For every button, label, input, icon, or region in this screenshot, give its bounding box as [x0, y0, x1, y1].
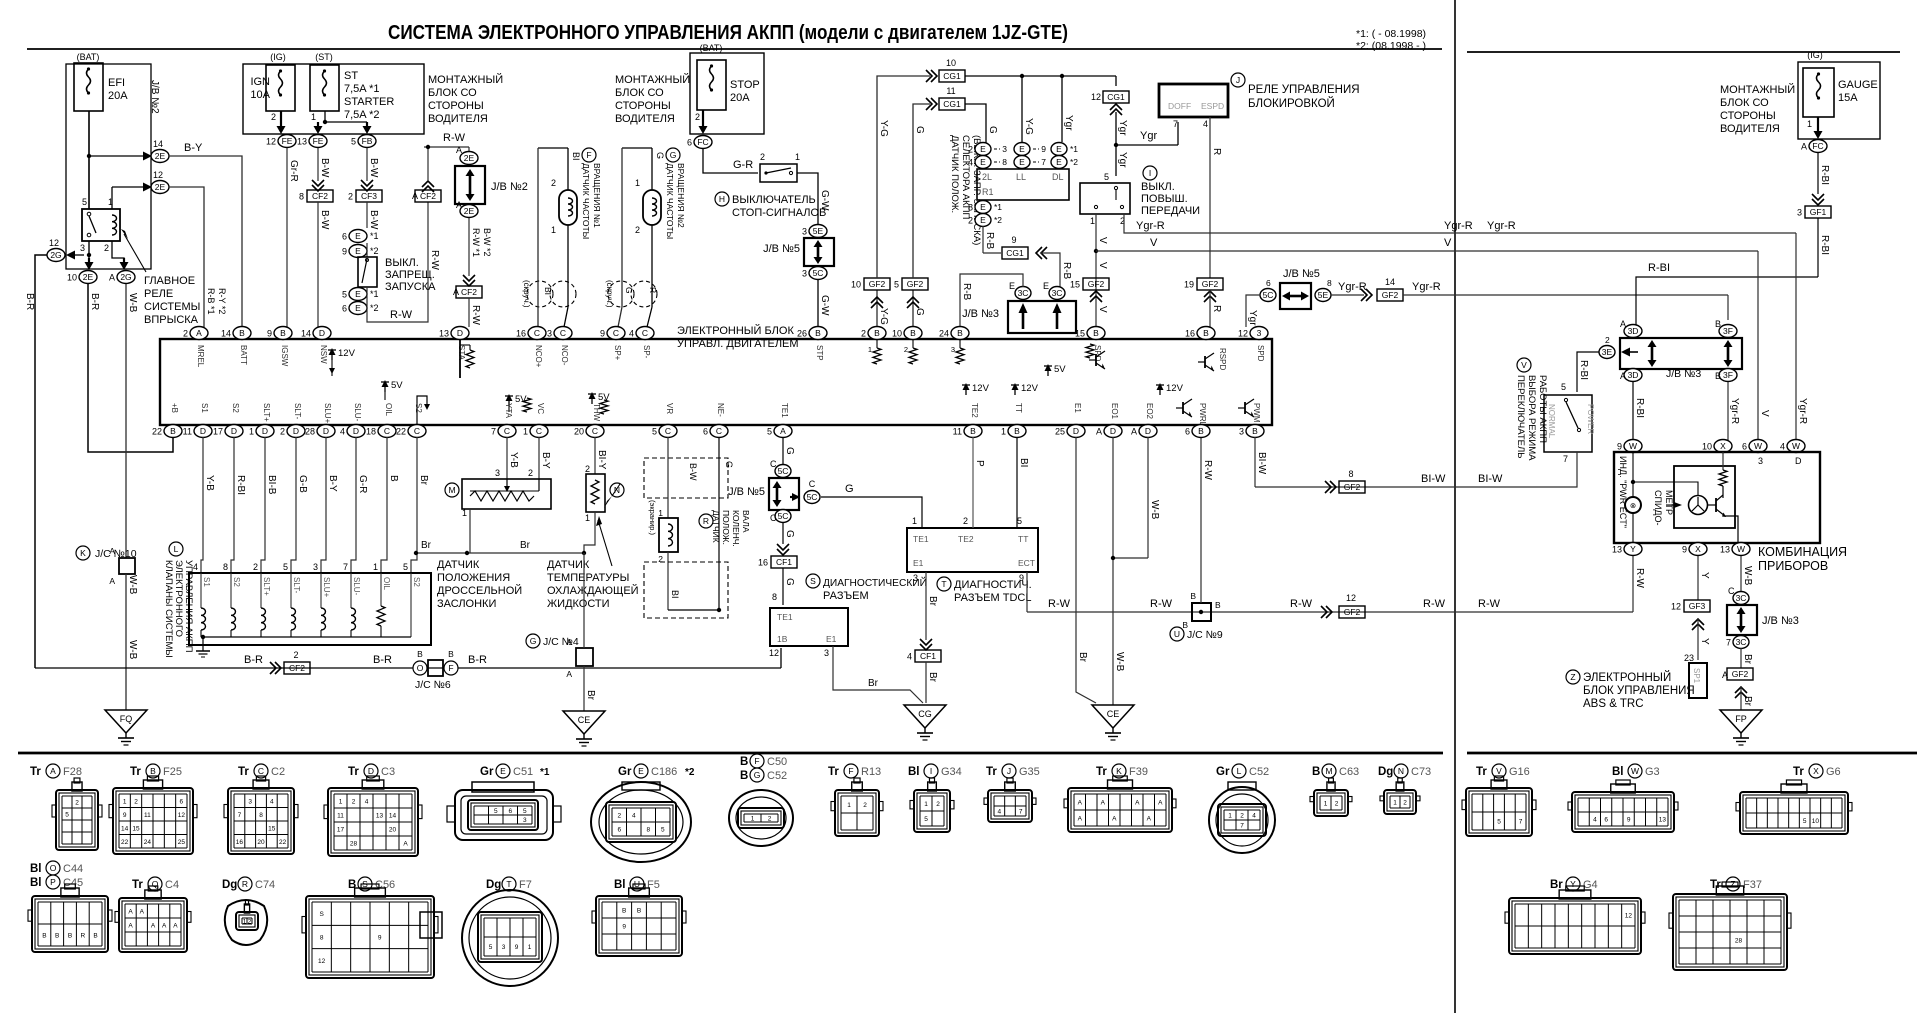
svg-text:ВЫБОРА РЕЖИМА: ВЫБОРА РЕЖИМА [1526, 375, 1537, 461]
svg-text:S2: S2 [414, 403, 423, 413]
wire Br from diag connector pin3 to CG ground [833, 646, 923, 703]
svg-text:3: 3 [913, 573, 918, 583]
svg-text:ТЕМПЕРАТУРЫ: ТЕМПЕРАТУРЫ [547, 572, 629, 584]
svg-text:3C: 3C [1052, 288, 1063, 298]
svg-text:9: 9 [622, 924, 626, 931]
svg-text:F39: F39 [1129, 766, 1148, 778]
wire W-B from ECU AD pins to CE ground [1112, 437, 1114, 705]
svg-text:R-W: R-W [1202, 460, 1213, 481]
wire relay pin3 to 2G [74, 254, 84, 256]
svg-text:8: 8 [320, 935, 324, 942]
svg-text:B-W *2: B-W *2 [482, 228, 492, 257]
wire Br from ECU 25D to CE ground [1076, 437, 1096, 703]
junction block J/B No5 left [804, 238, 834, 266]
svg-text:14: 14 [389, 813, 397, 820]
svg-text:B: B [448, 649, 454, 659]
svg-text:9: 9 [1682, 545, 1687, 555]
wire BI-Y coolant sensor [594, 437, 596, 474]
svg-text:R: R [242, 879, 248, 889]
svg-text:B-R: B-R [89, 293, 100, 310]
svg-text:J/C №4: J/C №4 [543, 636, 579, 648]
svg-text:R-W: R-W [429, 250, 440, 271]
ground CE left [563, 711, 605, 734]
svg-text:1: 1 [1001, 427, 1006, 437]
svg-text:3: 3 [313, 562, 318, 572]
svg-text:13: 13 [1659, 817, 1667, 824]
svg-text:I: I [930, 766, 932, 776]
svg-text:POWER: POWER [1586, 404, 1595, 434]
svg-text:E1: E1 [913, 558, 924, 568]
svg-text:5: 5 [283, 562, 288, 572]
svg-text:Ygr: Ygr [1117, 152, 1128, 168]
svg-text:15: 15 [1075, 329, 1085, 339]
wire R-W from mounting block to J/B No2 [424, 146, 469, 148]
wire Y from cluster 9X to ABS [1697, 556, 1699, 600]
svg-text:TE2: TE2 [970, 403, 979, 418]
svg-text:SLT-: SLT- [293, 403, 302, 420]
svg-text:(IG): (IG) [1807, 50, 1823, 60]
pin 12 FE [278, 135, 296, 148]
svg-text:R-BI: R-BI [1648, 262, 1670, 274]
svg-text:LL: LL [1016, 172, 1026, 182]
pin 9 E *2 [349, 245, 367, 258]
svg-text:E: E [1056, 144, 1062, 154]
svg-text:Br: Br [1077, 652, 1088, 663]
svg-text:BI-W: BI-W [1256, 452, 1267, 475]
svg-text:E: E [980, 144, 986, 154]
svg-text:4: 4 [1593, 817, 1597, 824]
svg-text:Gr-R: Gr-R [288, 160, 299, 182]
svg-text:C4: C4 [165, 879, 179, 891]
svg-text:ИНД. "PWR ECT": ИНД. "PWR ECT" [1618, 456, 1628, 528]
svg-text:R-W *1: R-W *1 [471, 228, 481, 257]
ECU internal 12V near NSW [331, 350, 333, 360]
svg-text:14: 14 [121, 825, 129, 832]
ECU internal STA branch [459, 340, 461, 378]
ECU bottom pin row [164, 425, 182, 438]
arrow from coolant label to sensor [598, 520, 612, 566]
svg-text:STOP: STOP [730, 79, 760, 91]
svg-text:15: 15 [1070, 280, 1080, 290]
svg-text:P: P [974, 460, 985, 467]
svg-text:*1: *1 [370, 289, 379, 299]
svg-text:G3: G3 [1645, 766, 1660, 778]
wire R-W return from switch [367, 202, 428, 322]
svg-text:Dg: Dg [486, 879, 501, 891]
svg-text:THW: THW [592, 403, 601, 422]
svg-text:T: T [506, 879, 511, 889]
svg-text:FP: FP [1735, 714, 1747, 724]
svg-text:5C: 5C [1263, 290, 1274, 300]
svg-text:3: 3 [1002, 144, 1007, 154]
svg-text:GF2: GF2 [907, 279, 924, 289]
svg-text:B-R: B-R [24, 293, 35, 310]
svg-text:E: E [980, 157, 986, 167]
svg-text:V: V [1097, 237, 1108, 244]
svg-text:МОНТАЖНЫЙ: МОНТАЖНЫЙ [1720, 83, 1795, 96]
svg-text:A: A [1620, 371, 1626, 381]
svg-text:Ygr-R: Ygr-R [1444, 220, 1473, 232]
svg-text:GF1: GF1 [1810, 207, 1827, 217]
svg-text:Bl: Bl [614, 879, 626, 891]
svg-text:14: 14 [301, 329, 311, 339]
svg-text:13: 13 [297, 137, 307, 147]
wire Ygr-R right via 14 GF2 [1331, 294, 1364, 296]
junction block J/B No3 bottom right [1727, 605, 1757, 635]
svg-text:13: 13 [1612, 545, 1622, 555]
svg-text:2: 2 [104, 243, 109, 253]
svg-text:25: 25 [178, 839, 186, 846]
svg-text:8: 8 [299, 192, 304, 202]
svg-text:2: 2 [863, 802, 867, 809]
svg-text:2: 2 [293, 650, 298, 660]
svg-text:2: 2 [1335, 801, 1339, 808]
svg-text:Y: Y [1699, 572, 1710, 579]
svg-text:16: 16 [758, 558, 768, 568]
svg-text:R-B *1: R-B *1 [206, 288, 216, 315]
svg-text:6: 6 [342, 232, 347, 242]
wire R-W from TDCL ECT pin9 [1026, 572, 1028, 612]
svg-text:E: E [638, 766, 644, 776]
pin 10 2E below relay box [79, 271, 97, 284]
svg-text:R-W: R-W [1478, 598, 1501, 610]
svg-text:W: W [1629, 441, 1637, 451]
svg-text:B-W: B-W [319, 210, 330, 230]
svg-text:CF1: CF1 [920, 651, 936, 661]
svg-text:7: 7 [1519, 819, 1523, 826]
wire B-Y TPS pin2 [538, 437, 540, 479]
crank position sensor ДАТЧИК ПОЛОЖ КОЛЕНЧ ВАЛА [667, 437, 669, 518]
wire Br to CE ground [583, 666, 585, 711]
svg-text:B-W: B-W [688, 463, 698, 481]
svg-text:ПОВЫШ.: ПОВЫШ. [1141, 193, 1188, 205]
svg-text:11: 11 [144, 812, 151, 819]
svg-text:*2: *2 [370, 246, 379, 256]
svg-text:C: C [414, 426, 420, 436]
svg-text:CG: CG [918, 709, 932, 719]
svg-text:ПОЛОЖЕНИЯ: ПОЛОЖЕНИЯ [437, 572, 510, 584]
svg-text:ДРОССЕЛЬНОЙ: ДРОССЕЛЬНОЙ [437, 584, 522, 597]
svg-text:BI-W: BI-W [1421, 473, 1446, 485]
wire B-R bus bottom [35, 667, 781, 669]
svg-text:O: O [417, 663, 424, 673]
cluster top pins [1624, 440, 1642, 453]
svg-text:J/B №5: J/B №5 [763, 243, 800, 255]
svg-text:ПЕРЕДАЧИ: ПЕРЕДАЧИ [1141, 205, 1200, 217]
svg-text:3: 3 [80, 243, 85, 253]
svg-text:МОНТАЖНЫЙ: МОНТАЖНЫЙ [428, 73, 503, 86]
svg-text:NE-: NE- [716, 403, 725, 417]
svg-text:R-W: R-W [1290, 598, 1313, 610]
svg-text:BI-W: BI-W [1478, 473, 1503, 485]
svg-text:БЛОКИРОВКОЙ: БЛОКИРОВКОЙ [1248, 97, 1335, 110]
wire Ygr-R down to cluster 10X [1727, 382, 1729, 440]
svg-text:Br: Br [868, 678, 879, 689]
mounting block box around STOP fuse [690, 53, 764, 134]
svg-text:10: 10 [1812, 818, 1820, 825]
solenoid block box КЛАПАНЫ СИСТЕМЫ [189, 573, 431, 645]
pin B 3F top [1719, 325, 1737, 338]
arrows into enclosure bottom [88, 258, 90, 263]
ECU internal transistor RSPD [1204, 356, 1206, 368]
svg-text:VC: VC [536, 403, 545, 414]
svg-text:R-W: R-W [470, 305, 481, 326]
svg-text:5V: 5V [515, 394, 527, 405]
svg-text:2: 2 [968, 216, 973, 226]
junction block J/B No3 upper [1008, 301, 1076, 333]
svg-text:GF2: GF2 [1382, 290, 1399, 300]
junction connector J/C No10 [76, 546, 90, 560]
svg-text:CG1: CG1 [1006, 248, 1024, 258]
crank sensor shield dashed box lower [644, 562, 728, 618]
svg-text:24: 24 [939, 329, 949, 339]
svg-text:1: 1 [373, 562, 378, 572]
svg-text:E: E [355, 246, 361, 256]
svg-text:C50: C50 [767, 756, 787, 768]
svg-text:G-R: G-R [357, 475, 368, 493]
svg-text:NSW: NSW [319, 345, 328, 364]
speed sensor No2 ДАТЧИК ЧАСТОТЫ ВРАЩЕНИЯ No2 [622, 147, 652, 149]
svg-text:5: 5 [661, 827, 665, 834]
svg-text:ПЕРЕКЛЮЧАТЕЛЬ: ПЕРЕКЛЮЧАТЕЛЬ [1515, 375, 1526, 458]
svg-text:6: 6 [1266, 278, 1271, 288]
svg-text:Bl: Bl [1612, 766, 1624, 778]
mounting block driver side box [243, 64, 424, 134]
svg-text:Ygr: Ygr [1247, 310, 1258, 326]
svg-text:EFI: EFI [108, 77, 125, 89]
svg-text:УПРАВЛ. ДВИГАТЕЛЕМ: УПРАВЛ. ДВИГАТЕЛЕМ [677, 338, 799, 350]
svg-text:7,5A *1: 7,5A *1 [344, 83, 379, 95]
svg-text:B: B [42, 933, 46, 940]
pin E 3C right [1049, 287, 1065, 300]
wire V from OD switch pin1 [1095, 214, 1097, 327]
svg-text:20A: 20A [108, 90, 128, 102]
svg-text:12: 12 [153, 170, 163, 180]
connector CG1 no10 [931, 70, 937, 82]
wire BI-W from ECU 3B [1254, 437, 1256, 487]
svg-text:РАЗЪЕМ: РАЗЪЕМ [823, 590, 869, 602]
svg-text:IGN: IGN [250, 76, 270, 88]
svg-text:12: 12 [178, 812, 186, 819]
svg-text:A: A [1801, 142, 1807, 152]
svg-text:E: E [355, 231, 361, 241]
junction block J/B No3 right [1620, 338, 1742, 369]
svg-text:W-B: W-B [127, 575, 138, 595]
svg-text:J/B №3: J/B №3 [962, 308, 999, 320]
svg-text:Y-G: Y-G [1023, 118, 1034, 135]
svg-text:R-W: R-W [443, 132, 466, 144]
lockup relay РЕЛЕ УПРАВЛЕНИЯ БЛОКИРОВКОЙ [1159, 84, 1228, 117]
pin 2 3E left [1599, 346, 1615, 359]
wire Ygr riser to 12 CG1 [1115, 76, 1117, 86]
svg-text:E: E [1043, 281, 1049, 291]
svg-text:5V: 5V [391, 380, 403, 391]
svg-text:G: G [914, 126, 925, 134]
svg-text:6: 6 [180, 798, 184, 805]
ground FP [1720, 710, 1762, 733]
twisted pair symbol sensor1 [527, 281, 553, 307]
wire R-B from selector to CG1 9 [982, 226, 984, 253]
svg-text:3: 3 [248, 798, 252, 805]
svg-text:B: B [1252, 426, 1258, 436]
wire Ygr to lockup relay pin7 [1116, 144, 1178, 146]
svg-text:22: 22 [121, 839, 129, 846]
svg-text:2: 2 [768, 816, 772, 823]
svg-text:12: 12 [318, 958, 326, 965]
svg-text:25: 25 [1055, 427, 1065, 437]
svg-text:*1: ( - 08.1998): *1: ( - 08.1998) [1356, 28, 1426, 40]
svg-text:FC: FC [1812, 141, 1823, 151]
wire G from ECU 5A [782, 437, 784, 465]
svg-text:1: 1 [751, 816, 755, 823]
svg-text:GF2: GF2 [869, 279, 886, 289]
svg-text:A: A [173, 923, 178, 930]
wire into speedometer [1633, 482, 1698, 496]
svg-text:SLU-: SLU- [352, 577, 361, 596]
svg-text:A: A [1101, 800, 1106, 807]
svg-text:2: 2 [271, 112, 276, 122]
pin A 3D bottom [1624, 369, 1642, 382]
svg-text:Ygr-R: Ygr-R [1487, 220, 1516, 232]
svg-text:1: 1 [551, 225, 556, 235]
svg-text:O: O [50, 863, 57, 873]
svg-text:СТОРОНЫ: СТОРОНЫ [428, 100, 484, 112]
svg-text:V: V [1759, 410, 1770, 417]
svg-text:T: T [941, 579, 946, 589]
pin E 3C left [1015, 287, 1031, 300]
svg-text:2: 2 [352, 799, 356, 806]
svg-text:7: 7 [1563, 454, 1568, 464]
svg-text:C74: C74 [255, 879, 275, 891]
svg-text:SP-: SP- [642, 345, 651, 359]
svg-text:J/C №9: J/C №9 [1187, 629, 1223, 641]
svg-text:R-BI: R-BI [1578, 360, 1589, 380]
svg-text:ПРИБОРОВ: ПРИБОРОВ [1758, 559, 1828, 573]
svg-text:ST: ST [344, 70, 358, 82]
svg-text:*2: *2 [685, 767, 695, 778]
svg-text:Y-G: Y-G [878, 308, 889, 325]
svg-text:3: 3 [802, 269, 807, 279]
svg-text:РЕЛЕ: РЕЛЕ [144, 288, 173, 300]
svg-text:FC: FC [697, 137, 708, 147]
junction connector J/C No4 [526, 634, 540, 648]
svg-text:STARTER: STARTER [344, 96, 394, 108]
svg-text:GF2: GF2 [1088, 279, 1105, 289]
svg-text:B: B [1014, 426, 1020, 436]
svg-text:Br: Br [927, 672, 938, 683]
svg-text:Tr: Tr [132, 879, 143, 891]
svg-text:5: 5 [82, 197, 87, 207]
svg-text:УПРАВЛЕНИЯ АКПП: УПРАВЛЕНИЯ АКПП [183, 560, 194, 653]
svg-text:CG1: CG1 [1107, 92, 1125, 102]
svg-text:F37: F37 [1743, 879, 1762, 891]
svg-text:C: C [534, 328, 540, 338]
svg-text:ЗАПРЕЩ.: ЗАПРЕЩ. [385, 269, 435, 281]
connector 12 GF2 on R-W [1326, 606, 1332, 618]
svg-text:13: 13 [376, 813, 384, 820]
svg-text:Br: Br [520, 540, 531, 551]
junction connector J/C No9 [1192, 603, 1211, 621]
svg-text:ЗАСЛОНКИ: ЗАСЛОНКИ [437, 598, 496, 610]
svg-text:A: A [1096, 427, 1102, 437]
svg-text:W: W [1754, 441, 1762, 451]
svg-text:10: 10 [1702, 442, 1712, 452]
svg-text:20A: 20A [730, 92, 750, 104]
svg-text:GAUGE: GAUGE [1838, 79, 1878, 91]
svg-text:D: D [1073, 426, 1079, 436]
svg-text:ДАТЧИК ПОЛОЖ.: ДАТЧИК ПОЛОЖ. [949, 135, 960, 213]
svg-text:RSPD: RSPD [1218, 348, 1227, 370]
svg-text:9: 9 [600, 329, 605, 339]
svg-text:DL: DL [1052, 172, 1064, 182]
svg-text:SLU-: SLU- [353, 403, 362, 422]
svg-text:5C: 5C [807, 492, 818, 502]
svg-text:A: A [109, 546, 115, 556]
wires ECU to solenoid block [201, 437, 203, 573]
ground CG [904, 705, 946, 728]
svg-text:2E: 2E [155, 151, 166, 161]
svg-text:J/B №2: J/B №2 [149, 80, 160, 114]
wire MREL from pin 12 2E [112, 186, 144, 188]
svg-text:A: A [140, 909, 145, 916]
svg-text:Tr: Tr [1096, 766, 1107, 778]
svg-text:C: C [716, 426, 722, 436]
svg-text:FB: FB [362, 136, 373, 146]
svg-text:1: 1 [1090, 216, 1095, 226]
svg-text:W-B: W-B [127, 640, 138, 660]
svg-text:8: 8 [1327, 278, 1332, 288]
svg-text:C: C [536, 426, 542, 436]
svg-text:4: 4 [998, 809, 1002, 816]
svg-text:Tr: Tr [828, 766, 839, 778]
svg-text:1: 1 [528, 944, 532, 951]
svg-text:IGSW: IGSW [280, 345, 289, 367]
pin 5 E *1 [349, 288, 367, 301]
svg-text:7: 7 [238, 812, 242, 819]
svg-text:CG1: CG1 [943, 99, 961, 109]
svg-text:22: 22 [279, 839, 287, 846]
svg-text:16: 16 [236, 839, 244, 846]
cluster bottom pins [1624, 543, 1642, 556]
svg-text:TE1: TE1 [780, 403, 789, 418]
title underline right [1467, 51, 1900, 53]
svg-text:ЖИДКОСТИ: ЖИДКОСТИ [547, 598, 610, 610]
pin A FC [1809, 140, 1827, 153]
svg-text:9: 9 [123, 812, 127, 819]
wire G-W to ECU pin 26B [817, 280, 819, 327]
svg-text:3D: 3D [1628, 326, 1639, 336]
svg-text:B: B [1198, 426, 1204, 436]
svg-text:NCO+: NCO+ [534, 345, 543, 368]
svg-text:C3: C3 [381, 766, 395, 778]
svg-text:J/B №2: J/B №2 [491, 181, 528, 193]
ground FQ [105, 710, 147, 733]
svg-text:C: C [592, 426, 598, 436]
svg-text:1: 1 [1228, 813, 1232, 820]
svg-text:X: X [1695, 544, 1701, 554]
svg-text:MREL: MREL [196, 345, 205, 368]
svg-text:Y: Y [1630, 544, 1636, 554]
svg-text:1: 1 [795, 152, 800, 162]
svg-text:2: 2 [348, 192, 353, 202]
svg-text:14: 14 [1385, 277, 1395, 287]
svg-text:B: B [1312, 766, 1320, 778]
svg-text:E: E [355, 303, 361, 313]
svg-text:E: E [500, 766, 506, 776]
svg-text:D: D [319, 328, 325, 338]
svg-text:*2: *2 [370, 303, 379, 313]
svg-text:G16: G16 [1509, 766, 1530, 778]
